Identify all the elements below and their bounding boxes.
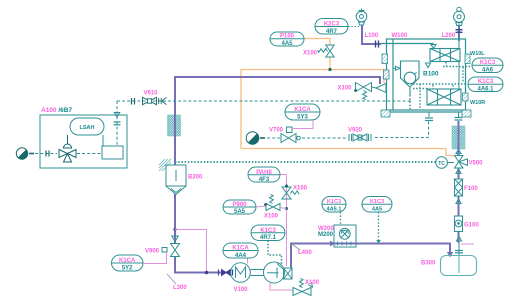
sight glass G100 xyxy=(455,216,463,232)
instrument oval LSAH xyxy=(70,118,104,135)
pink discharge to X100d xyxy=(270,283,293,290)
svg-text:V920: V920 xyxy=(348,128,363,134)
capsule K1C3/4A6.1 xyxy=(468,77,503,93)
dashed utility line into A100 xyxy=(30,153,101,155)
B100 bottom nozzle xyxy=(425,118,433,121)
svg-text:4R7: 4R7 xyxy=(326,29,338,35)
B100 right nozzle to heater xyxy=(455,118,463,121)
coupling xyxy=(250,269,263,271)
capsule K2C3/4R7 xyxy=(315,19,359,35)
B100 corner feet hatched xyxy=(381,110,390,117)
svg-text:X100: X100 xyxy=(293,186,308,192)
main dashed header y=101 xyxy=(117,100,411,102)
vessel B200 hopper xyxy=(166,165,186,195)
flange on dashed header xyxy=(132,98,135,105)
arrow purple on L400 xyxy=(330,241,336,247)
A100 package box xyxy=(40,115,127,168)
capsule K1C3/4A6 xyxy=(472,58,503,74)
junction dot pump suction xyxy=(205,271,209,275)
capsule K1CA/4A4 xyxy=(223,243,258,259)
svg-text:V100: V100 xyxy=(234,287,249,293)
TC controller circle xyxy=(436,157,454,169)
arrow up on riser above G100 xyxy=(456,199,461,204)
svg-text:L400: L400 xyxy=(298,250,312,256)
svg-text:5Y3: 5Y3 xyxy=(297,114,308,120)
capsule P100/4A5 xyxy=(270,32,304,47)
svg-text:4A4: 4A4 xyxy=(235,253,247,259)
svg-text:X100: X100 xyxy=(264,214,279,220)
instrument circle above L200 xyxy=(454,7,465,40)
svg-text:W100: W100 xyxy=(392,33,408,39)
svg-text:V500: V500 xyxy=(469,161,484,167)
relief valve X100e group xyxy=(356,83,377,100)
connector tick xyxy=(29,153,34,155)
heat exchanger HX2 xyxy=(427,89,461,105)
svg-text:W10L: W10L xyxy=(470,51,485,57)
chute into B100 xyxy=(376,84,386,93)
svg-text:K2C3: K2C3 xyxy=(324,21,340,27)
svg-text:K1CA: K1CA xyxy=(294,107,311,113)
junction dot purple/orange xyxy=(382,76,385,79)
heat exchanger HX1 xyxy=(430,49,460,62)
wire purple L400 riser xyxy=(291,244,450,269)
utility circle V700 xyxy=(246,132,259,145)
hatched exchanger on B200 riser xyxy=(168,115,181,136)
blower W200 xyxy=(334,225,356,247)
leader L300 xyxy=(167,274,176,284)
svg-text:B300: B300 xyxy=(421,261,436,267)
orange header y=69.5 xyxy=(241,70,384,149)
svg-text:K1C3: K1C3 xyxy=(370,199,384,205)
orange line from P100 capsule to valve X100a xyxy=(241,39,455,156)
pink line P900 to X100b xyxy=(256,206,266,207)
utility circle left xyxy=(16,148,27,159)
junction dot L300 xyxy=(173,228,176,231)
svg-text:TC: TC xyxy=(438,161,445,167)
svg-text:B100: B100 xyxy=(423,71,439,78)
svg-text:P100: P100 xyxy=(280,34,295,40)
vessel B100 outer box xyxy=(382,39,471,112)
valve V900 xyxy=(162,244,180,257)
arrow HX1 bottom xyxy=(425,63,430,68)
svg-text:K1C3: K1C3 xyxy=(480,60,496,66)
capsule K1C3/4A5.1 xyxy=(322,197,346,213)
svg-text:4A6: 4A6 xyxy=(482,68,494,74)
cyclone in B100 xyxy=(401,61,420,95)
dotted signal from K1C3/4R7.1 to silencer xyxy=(268,241,282,267)
orange line y=148.5 to TC xyxy=(241,149,455,156)
capacitor mark on dashed drop xyxy=(114,122,121,125)
B100 wall nozzle hatches xyxy=(382,54,388,64)
silencer box at pump discharge xyxy=(284,268,293,279)
suction valve at pump xyxy=(222,270,231,276)
wire purple right main riser V500-F100-G100 xyxy=(458,121,460,155)
svg-text:4F3: 4F3 xyxy=(259,177,270,183)
valve V500 (3-way) xyxy=(455,156,468,169)
svg-text:A100 /6B7: A100 /6B7 xyxy=(41,107,72,114)
capsule K1C3/4R7.1 xyxy=(251,225,285,241)
flange on utility line xyxy=(46,151,49,157)
svg-text:V910: V910 xyxy=(144,91,159,97)
tank B300 xyxy=(441,256,477,276)
svg-text:5A5: 5A5 xyxy=(234,209,246,215)
svg-text:PAH8: PAH8 xyxy=(256,170,272,176)
tank vapor line to G100 xyxy=(458,243,460,255)
pump body xyxy=(264,262,285,283)
dotted signals to W200 and line xyxy=(341,212,379,241)
pink line capsule K1CA to motor xyxy=(247,258,249,264)
svg-text:W10R: W10R xyxy=(470,100,485,106)
wire LSAH to box xyxy=(102,135,104,146)
flange L200 xyxy=(456,30,463,33)
insulation hatch at B200 top xyxy=(159,159,171,171)
svg-text:LSAH: LSAH xyxy=(80,125,95,131)
valve V910 xyxy=(143,97,167,104)
arrow above V500 xyxy=(456,150,461,154)
hatched exchanger on right riser xyxy=(452,126,465,149)
svg-text:M200: M200 xyxy=(318,232,334,238)
svg-text:X100: X100 xyxy=(303,51,318,57)
inlet valve to cyclone xyxy=(393,66,400,70)
wire purple through right hatch xyxy=(458,121,460,155)
relief valve X100d xyxy=(293,278,313,295)
svg-text:K1C3: K1C3 xyxy=(260,228,276,234)
wire purple L200 xyxy=(458,26,460,41)
dashed signal from top into box xyxy=(116,101,118,146)
capsule PAH8/4F3 xyxy=(248,167,280,183)
wire purple through B200 hatch xyxy=(174,110,176,165)
svg-text:K1C3: K1C3 xyxy=(478,79,494,85)
dotted signal y=162 to TC xyxy=(175,161,436,163)
arrow on B200 downcomer xyxy=(172,236,178,242)
svg-text:K1C3: K1C3 xyxy=(327,199,341,205)
wire W100 internal feed xyxy=(381,43,434,45)
svg-text:4A6.1: 4A6.1 xyxy=(477,87,494,93)
wire purple V900 to pump suction xyxy=(175,257,231,273)
svg-text:F100: F100 xyxy=(464,186,478,192)
svg-text:4R7.1: 4R7.1 xyxy=(260,235,277,241)
svg-text:L100: L100 xyxy=(365,33,379,39)
leader L400 xyxy=(293,245,301,251)
dashed line V700 xyxy=(262,137,429,140)
wire purple L100 xyxy=(175,25,459,273)
svg-text:5Y2: 5Y2 xyxy=(122,265,133,271)
internal line HX1 to HX2 xyxy=(458,62,460,90)
valve V700 xyxy=(281,127,300,143)
svg-text:K1CA: K1CA xyxy=(119,258,136,264)
svg-text:X100: X100 xyxy=(338,86,353,92)
arrow up on riser above F100 xyxy=(456,169,461,174)
wire purple B200 downcomer to V900 xyxy=(174,194,176,243)
capsule K1C3/4A5 xyxy=(362,197,392,213)
svg-text:K1CA: K1CA xyxy=(232,246,249,252)
arrow purple into B300 xyxy=(447,252,453,258)
capsule K1CA/5Y2 xyxy=(112,255,144,271)
instrument circle above L100 xyxy=(356,9,367,26)
svg-text:B200: B200 xyxy=(188,175,203,181)
capsule K1CA/5Y3 xyxy=(285,104,320,120)
pink actuation line V900 xyxy=(143,252,167,264)
svg-text:G100: G100 xyxy=(464,223,479,229)
flange L100 xyxy=(376,41,379,48)
filter F100 xyxy=(455,179,463,196)
orange line valve X100a down to header xyxy=(329,57,331,70)
valve V920 xyxy=(349,134,371,141)
control valve in A100 (3-way, diaphragm) xyxy=(59,135,76,162)
svg-text:V700: V700 xyxy=(269,128,284,134)
svg-text:X100: X100 xyxy=(305,280,320,286)
svg-text:4A5: 4A5 xyxy=(281,41,293,47)
pink line hopper to pump suction xyxy=(175,230,207,273)
relief valve X100c xyxy=(282,187,299,199)
wire purple hopper header: B200 riser to X100e xyxy=(175,77,380,161)
relief valve X100b xyxy=(266,194,280,210)
svg-text:L300: L300 xyxy=(173,285,187,291)
pink stub right of tank riser xyxy=(461,243,474,245)
magenta header from PAH capsule down xyxy=(280,175,287,267)
svg-text:V900: V900 xyxy=(145,249,160,255)
svg-text:P900: P900 xyxy=(232,202,247,208)
pump V100 motor xyxy=(231,262,285,283)
dotted internals below cyclone xyxy=(410,62,471,110)
valve X100a with spring xyxy=(318,45,335,57)
arrow into A100 top xyxy=(114,113,119,118)
capsule P900/5A5 xyxy=(223,200,256,215)
transmitter box in A100 xyxy=(102,146,123,159)
svg-text:4A5.1: 4A5.1 xyxy=(327,207,342,213)
pink actuation 5Y3 to V700 xyxy=(292,120,313,129)
svg-text:4A5: 4A5 xyxy=(372,207,382,213)
svg-text:L200: L200 xyxy=(442,33,456,39)
